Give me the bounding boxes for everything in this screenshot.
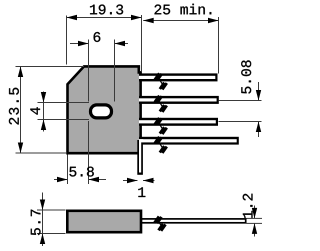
- dimension label 25 min.: [155, 4, 212, 15]
- dimension label 5.08: [241, 60, 251, 93]
- dimension label 5.7: [31, 210, 41, 235]
- lead 1: [139, 73, 218, 81]
- mounting hole: [91, 105, 112, 118]
- bottom tab pin: [137, 140, 143, 175]
- break mark side lead: [155, 216, 166, 230]
- break mark lead 1: [155, 73, 167, 89]
- dim 5.8: [54, 121, 106, 184]
- break mark lead 4: [155, 137, 167, 153]
- break mark lead 2: [155, 96, 167, 112]
- side view lead: [142, 219, 246, 223]
- dimension label 1: [138, 187, 145, 197]
- body outline (top view, chamfered top-left, stepped right corners): [68, 66, 141, 153]
- lead 4: [139, 137, 239, 145]
- lead 3: [139, 118, 218, 126]
- dimension label 23.5: [9, 88, 19, 125]
- dim 5.08 (lead pitch): [219, 60, 262, 137]
- dimension label 1.2: [243, 194, 253, 218]
- dim 19.3: [67, 5, 142, 71]
- break mark lead 3: [155, 118, 167, 134]
- dim 5.7 (side height): [31, 193, 66, 247]
- lead 2: [139, 96, 219, 104]
- side view body bar: [67, 211, 141, 232]
- dim 1 (tab width): [123, 178, 155, 197]
- dimension label 4: [30, 107, 40, 114]
- dim 25 min.: [143, 4, 218, 74]
- dimension label 6: [94, 32, 101, 42]
- dim 1.2 (lead thickness): [243, 194, 262, 237]
- dimension label 19.3: [90, 5, 123, 15]
- dim 4 (hole height): [30, 92, 89, 132]
- dim 6 (hole width): [70, 32, 128, 101]
- dimension label 5.8: [69, 167, 93, 177]
- dim 23.5 (body height): [9, 67, 84, 154]
